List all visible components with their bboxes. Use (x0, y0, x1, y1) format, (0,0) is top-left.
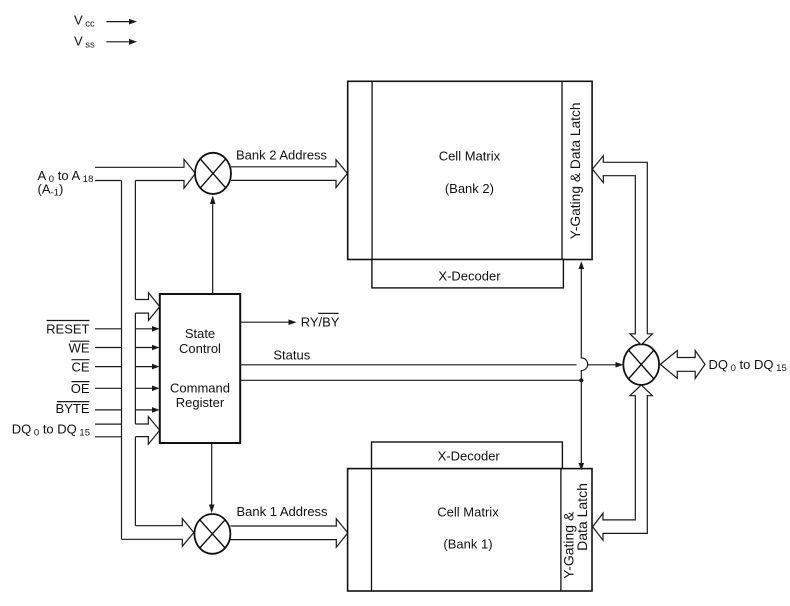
wire OE arrow into state control (135, 386, 159, 392)
svg-text:Data Latch: Data Latch (574, 483, 590, 551)
block bank2 cell matrix outer box (348, 81, 592, 259)
bus A vertical right edge segment 1 (134, 181, 136, 300)
wire OE line (95, 387, 122, 389)
svg-text:Y-Gating & Data Latch: Y-Gating & Data Latch (568, 102, 583, 239)
svg-text:(A-1): (A-1) (38, 182, 64, 199)
svg-text:Register: Register (176, 395, 225, 410)
svg-text:WE: WE (69, 340, 90, 355)
line bank1 y-gating divider (560, 469, 562, 591)
wire RESET arrow into state control (135, 326, 159, 332)
svg-text:X-Decoder: X-Decoder (438, 268, 501, 283)
wire BYTE arrow into state control (135, 407, 159, 413)
svg-text:Bank 2 Address: Bank 2 Address (236, 147, 328, 162)
wire DQ bottom line (95, 436, 122, 438)
bus hollow L path bank2 y-gating to DQ mux (592, 156, 652, 345)
bus A vertical left edge (121, 181, 123, 540)
svg-text:Cell Matrix: Cell Matrix (437, 504, 499, 519)
bus DQ arrow into state control with open arrowhead (135, 417, 159, 445)
bus A0-A18 horizontal arm into bank2 mux with open arrowhead (95, 159, 195, 188)
svg-text:OE: OE (71, 381, 90, 396)
svg-text:Bank 1 Address: Bank 1 Address (237, 504, 329, 519)
bus branch into state control with open arrowhead (135, 293, 159, 321)
bus A arm into bank1 mux with open arrowhead (122, 519, 194, 547)
line bank1 inner left divider (371, 469, 373, 591)
svg-text:Control: Control (179, 341, 221, 356)
wire CE line (95, 366, 122, 368)
bus DQ bidirectional hollow arrow (660, 351, 705, 379)
svg-text:Cell Matrix: Cell Matrix (439, 149, 501, 164)
bus hollow L path bank1 y-gating to DQ mux (593, 385, 653, 540)
bus A vertical right edge segment 3 (134, 437, 136, 526)
wire CE arrow into state control (135, 364, 159, 370)
bus A bottom edge left part (95, 180, 122, 182)
bus A vertical right edge segment 2 (134, 313, 136, 424)
mux M2 bank2 address multiplexer (195, 153, 231, 194)
svg-text:Command: Command (170, 380, 230, 395)
svg-text:Status: Status (273, 348, 310, 363)
bus bank2 address from mux to cell matrix (231, 160, 347, 188)
block bank2 X-Decoder (372, 260, 564, 288)
svg-text:BYTE: BYTE (56, 401, 90, 416)
svg-text:X-Decoder: X-Decoder (438, 448, 501, 463)
wire BYTE line (95, 409, 122, 411)
wire WE arrow into state control (135, 345, 159, 351)
wire status upper line broken at hop, arrow into DQ mux (240, 362, 623, 368)
wire bank1 mux select from state control (209, 443, 215, 513)
wire RY/BY output arrow (240, 319, 296, 325)
svg-text:(Bank 2): (Bank 2) (445, 181, 494, 196)
wire bank2 mux select from state control (210, 196, 216, 295)
wire RESET line (95, 328, 122, 330)
line bank2 inner left divider (371, 81, 373, 259)
block State Control / Command Register (160, 294, 240, 443)
wire Vss arrow (106, 39, 137, 45)
block bank1 cell matrix outer box (348, 469, 592, 591)
wire status lower line to y-gating connector (240, 379, 581, 381)
svg-text:RESET: RESET (46, 322, 89, 337)
mux M3 DQ multiplexer (623, 344, 659, 385)
wire y-gating connector vertical with hop over status line and arrows both ends (579, 261, 588, 470)
wire WE line (95, 347, 122, 349)
svg-text:(Bank 1): (Bank 1) (443, 537, 492, 552)
svg-text:RY/BY: RY/BY (301, 314, 340, 329)
svg-text:CE: CE (71, 359, 89, 374)
wire Vcc arrow (106, 19, 137, 25)
node junction dot on y-gating connector (579, 378, 583, 382)
block bank1 X-Decoder (372, 442, 563, 469)
line bank2 y-gating divider (561, 81, 563, 259)
svg-text:State: State (185, 326, 215, 341)
wire DQ top line (95, 423, 122, 425)
mux M1 bank1 address multiplexer (194, 514, 230, 554)
bus bank1 address from mux to cell matrix (230, 519, 347, 547)
